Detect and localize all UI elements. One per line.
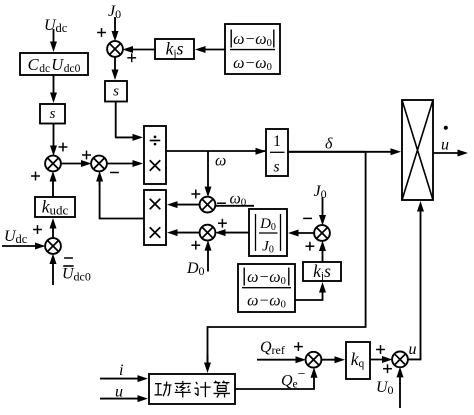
svg-text:0: 0: [199, 264, 205, 278]
svg-text:s: s: [50, 106, 56, 122]
svg-text:0: 0: [267, 38, 272, 49]
svg-text:0: 0: [281, 300, 286, 311]
svg-text:u: u: [115, 384, 123, 401]
svg-text:0: 0: [269, 245, 274, 256]
svg-text:ω: ω: [230, 191, 241, 208]
svg-text:s: s: [113, 84, 119, 100]
svg-text:Q: Q: [260, 339, 272, 356]
svg-text:dc0: dc0: [74, 270, 91, 284]
svg-text:dc: dc: [56, 21, 68, 35]
svg-text:0: 0: [281, 276, 286, 287]
svg-text:q: q: [359, 358, 365, 370]
svg-text:0: 0: [115, 7, 121, 21]
svg-text:−: −: [298, 367, 306, 382]
svg-text:ω: ω: [233, 31, 244, 48]
svg-text:ω: ω: [247, 269, 258, 286]
svg-text:1: 1: [273, 133, 281, 150]
svg-text:0: 0: [241, 197, 247, 209]
svg-text:ω: ω: [255, 31, 266, 48]
svg-text:D: D: [259, 216, 271, 232]
svg-text:U: U: [51, 55, 64, 74]
svg-text:ω: ω: [255, 55, 266, 72]
svg-text:udc: udc: [50, 203, 69, 218]
svg-text:0: 0: [271, 222, 276, 233]
svg-text:−: −: [258, 293, 269, 310]
svg-text:u: u: [441, 137, 449, 154]
svg-text:u: u: [409, 341, 417, 358]
svg-text:δ: δ: [325, 136, 333, 153]
svg-text:−: −: [244, 55, 255, 72]
svg-text:−: −: [258, 269, 269, 286]
svg-text:C: C: [28, 55, 40, 74]
svg-text:−: −: [244, 31, 255, 48]
svg-text:i: i: [119, 362, 123, 379]
svg-text:dc: dc: [39, 63, 50, 75]
svg-text:ω: ω: [247, 293, 258, 310]
svg-text:0: 0: [321, 187, 327, 201]
svg-text:ω: ω: [233, 55, 244, 72]
svg-text:ref: ref: [272, 343, 285, 357]
svg-text:0: 0: [267, 62, 272, 73]
svg-text:D: D: [186, 260, 199, 277]
svg-text:ω: ω: [269, 293, 280, 310]
svg-text:s: s: [273, 159, 279, 176]
svg-text:dc: dc: [16, 232, 28, 246]
svg-text:ω: ω: [269, 269, 280, 286]
svg-text:s: s: [324, 261, 331, 281]
svg-text:dc0: dc0: [64, 63, 81, 75]
svg-text:Q: Q: [281, 373, 293, 390]
svg-text:ω: ω: [215, 153, 226, 170]
svg-text:0: 0: [388, 383, 394, 397]
svg-text:s: s: [177, 39, 184, 59]
